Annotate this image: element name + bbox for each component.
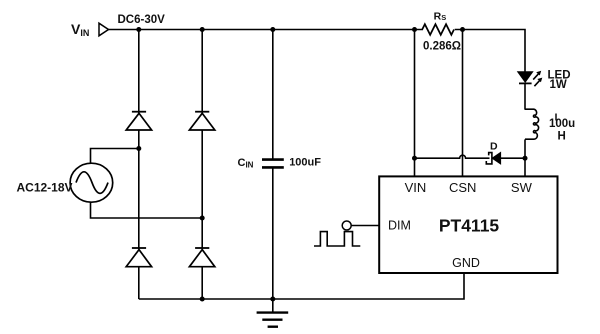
- LED: [518, 71, 543, 86]
- node junction dot left leg / AC top: [136, 146, 141, 151]
- node junction dot bottom rail / ground: [270, 297, 275, 302]
- svg-text:VIN: VIN: [405, 180, 427, 195]
- diode bridge D1 (left top): [126, 112, 151, 130]
- wire diode D horizontal with hop over CSN line: [415, 155, 526, 158]
- svg-text:GND: GND: [452, 256, 480, 270]
- diode D (schottky): [486, 153, 500, 164]
- node junction dot top rail / left bridge leg: [136, 27, 141, 32]
- DIM terminal circle: [342, 221, 351, 230]
- svg-text:D: D: [490, 141, 498, 153]
- wire DIM input: [351, 225, 379, 227]
- wire AC top to left bridge leg: [91, 149, 139, 164]
- svg-text:100u: 100u: [549, 118, 575, 130]
- svg-text:SW: SW: [511, 180, 533, 195]
- node junction dot right leg / AC bottom: [200, 216, 205, 221]
- tick mark over 100u: [555, 114, 557, 121]
- node junction dot VIN line / diode D wire: [412, 156, 417, 161]
- wire top rail: [109, 29, 424, 31]
- capacitor CIN branch wire top: [272, 30, 274, 160]
- svg-text:1W: 1W: [550, 79, 567, 91]
- node junction dot top rail / VIN pin line: [412, 27, 417, 32]
- bridge left leg wire: [138, 30, 140, 300]
- capacitor CIN: [262, 160, 284, 168]
- svg-text:H: H: [558, 130, 566, 142]
- input terminal VIN triangle: [99, 23, 109, 36]
- node junction dot top rail / CIN: [270, 27, 275, 32]
- diode bridge D3 (left bottom): [126, 248, 151, 267]
- wire CSN pin line: [462, 30, 464, 177]
- svg-text:100uF: 100uF: [289, 157, 321, 169]
- inductor L: [525, 109, 539, 139]
- node junction dot bottom rail / right bridge leg: [200, 297, 205, 302]
- node junction dot top rail / right bridge leg: [200, 27, 205, 32]
- resistor RS: [422, 24, 454, 35]
- diode bridge D4 (right bottom): [189, 248, 214, 267]
- svg-text:PT4115: PT4115: [439, 215, 500, 235]
- svg-text:DIM: DIM: [388, 218, 411, 232]
- op IC U1 PT4115 box: [379, 176, 557, 273]
- wire rail from RS to LED branch corner: [455, 30, 525, 72]
- diode bridge D2 (right top): [189, 112, 214, 130]
- capacitor CIN branch wire bottom: [272, 168, 274, 299]
- AC source: [70, 163, 113, 202]
- svg-text:RS: RS: [434, 11, 447, 23]
- node junction dot SW / diode D wire: [523, 156, 528, 161]
- svg-text:0.286Ω: 0.286Ω: [423, 41, 461, 53]
- ground: [257, 299, 289, 327]
- wire LED cathode to inductor: [524, 83, 526, 109]
- svg-text:AC12-18V: AC12-18V: [17, 181, 73, 195]
- wire AC bottom to right bridge leg: [91, 202, 203, 219]
- PWM waveform symbol: [314, 232, 360, 246]
- wire GND pin to bottom rail: [139, 273, 464, 299]
- svg-text:DC6-30V: DC6-30V: [118, 14, 166, 26]
- node junction dot top rail / CSN pin line: [460, 27, 465, 32]
- wire inductor to SW pin: [524, 139, 526, 176]
- wire VIN pin line: [414, 30, 416, 177]
- svg-text:CSN: CSN: [449, 180, 476, 195]
- bridge right leg wire: [201, 30, 203, 300]
